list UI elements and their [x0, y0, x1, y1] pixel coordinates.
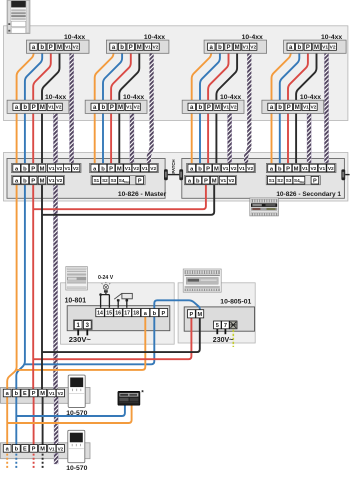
- box 10-826 Secondary 1: [182, 159, 345, 199]
- svg-text:V2: V2: [250, 45, 256, 51]
- svg-text:V1: V1: [64, 166, 70, 172]
- wire blue 10-801 b to 10-805 M: [154, 300, 200, 310]
- svg-text:10-4xx: 10-4xx: [64, 34, 85, 41]
- cable V1V2 riser from master: [53, 184, 57, 391]
- wire orange branch to relay module: [7, 405, 131, 424]
- svg-text:18: 18: [133, 311, 139, 317]
- svg-text:5: 5: [216, 323, 219, 329]
- cable V1V2 from lower 10-4xx block 1: [53, 110, 57, 166]
- apartment station 2 (10-570): [68, 430, 85, 462]
- svg-text:7: 7: [224, 323, 227, 329]
- wire M-bus black riser: [41, 184, 43, 389]
- cable V1V2 from upper 10-4xx block 4: [324, 50, 328, 166]
- svg-text:M: M: [295, 105, 300, 111]
- svg-text:V1: V1: [145, 45, 151, 51]
- svg-text:V1: V1: [220, 178, 226, 184]
- svg-text:V1: V1: [65, 45, 71, 51]
- svg-text:V2: V2: [247, 166, 253, 172]
- wire a-bus column 1: [17, 50, 34, 164]
- device icon 10-805-01: [183, 269, 221, 292]
- wire b-bus column 3: [200, 50, 220, 164]
- patch plug secondary right edge: [341, 169, 349, 180]
- inner box 10-801: [67, 306, 170, 331]
- terminal block A4 (10-4xx): [284, 40, 347, 53]
- svg-text:M: M: [314, 45, 319, 51]
- wire a-bus column 4: [272, 50, 291, 164]
- wire M between strips: [42, 397, 44, 445]
- svg-text:V2: V2: [310, 166, 316, 172]
- cable V1V2 from lower 10-4xx block 4: [307, 110, 311, 166]
- wire a-bus column 2: [95, 50, 114, 164]
- svg-text:V2: V2: [58, 446, 64, 451]
- lamp leads to terminals 14 15: [105, 293, 107, 295]
- svg-text:M: M: [212, 179, 217, 185]
- svg-text:14: 14: [97, 311, 103, 317]
- terminal row2 master a b P M V1 V2: [11, 176, 64, 185]
- svg-text:10-4xx: 10-4xx: [242, 34, 263, 41]
- cable V1V2 from lower 10-4xx block 3: [228, 110, 232, 166]
- svg-text:V2: V2: [58, 391, 64, 396]
- svg-text:V1: V1: [126, 105, 132, 111]
- svg-text:V2: V2: [310, 105, 316, 111]
- terminals 1 3 (230V input): [74, 320, 93, 330]
- svg-text:V2: V2: [330, 45, 336, 51]
- svg-text:P: P: [31, 166, 35, 172]
- svg-text:S2: S2: [277, 178, 283, 183]
- svg-text:b: b: [278, 166, 282, 172]
- svg-text:V1: V1: [48, 105, 54, 111]
- svg-text:V1: V1: [243, 45, 249, 51]
- terminal row1 master group2 a b P M V1 V2 V1 V2: [90, 163, 159, 172]
- svg-text:V1: V1: [322, 45, 328, 51]
- svg-text:10-801: 10-801: [65, 298, 87, 305]
- svg-text:V1: V1: [49, 391, 55, 396]
- wire a-bus column 3: [192, 50, 212, 164]
- svg-text:b: b: [297, 45, 301, 51]
- svg-text:V2: V2: [231, 105, 237, 111]
- device icon 10-801: [66, 267, 88, 290]
- svg-text:V2: V2: [56, 105, 62, 111]
- svg-text:V1: V1: [49, 446, 55, 451]
- wire P-bus red branch to secondary: [33, 184, 206, 209]
- svg-text:10-4xx: 10-4xx: [220, 94, 241, 101]
- wire P-bus column 2: [111, 50, 131, 164]
- wire b-bus blue branch to 10-801: [25, 317, 154, 365]
- terminal row1 master group1 a b P M V1 V2 V1 V2: [11, 163, 81, 172]
- svg-text:b: b: [23, 105, 27, 111]
- wire P-bus red riser: [32, 184, 34, 389]
- svg-text:10-805-01: 10-805-01: [220, 298, 251, 305]
- svg-text:M: M: [118, 105, 123, 111]
- module icon 10-826 device: [250, 198, 279, 216]
- wire M-bus column 1: [42, 50, 60, 164]
- leads below 1 3: [77, 330, 79, 336]
- svg-text:V1: V1: [49, 166, 55, 172]
- svg-text:b: b: [15, 391, 19, 397]
- wire stub b dashed: [15, 454, 17, 469]
- wire M-bus column 2: [119, 50, 139, 164]
- svg-text:P: P: [206, 166, 210, 172]
- svg-text:V1: V1: [223, 105, 229, 111]
- svg-text:17: 17: [124, 311, 130, 317]
- svg-text:b: b: [23, 179, 27, 185]
- terminal block B2 (10-4xx): [85, 100, 147, 113]
- svg-text:b: b: [23, 166, 27, 172]
- svg-text:10-4xx: 10-4xx: [123, 94, 144, 101]
- svg-text:V1: V1: [239, 166, 245, 172]
- wire a-bus orange branch to 10-801: [17, 317, 146, 370]
- relay module (asterisk): [118, 391, 140, 405]
- svg-text:V2: V2: [133, 166, 139, 172]
- svg-text:P: P: [286, 166, 290, 172]
- apartment station 1 (10-570): [68, 375, 85, 407]
- wire stub M dashed: [42, 454, 44, 469]
- svg-text:S3: S3: [286, 178, 292, 183]
- cable V1V2 from upper 10-4xx block 2: [149, 50, 152, 166]
- svg-text:10-4xx: 10-4xx: [321, 34, 342, 41]
- svg-text:S1: S1: [94, 178, 100, 183]
- svg-text:P: P: [49, 45, 53, 51]
- wire P-bus column 3: [208, 50, 228, 164]
- svg-text:b: b: [278, 105, 282, 111]
- wire P-bus column 1: [33, 50, 51, 164]
- wire b-bus column 4: [280, 50, 300, 164]
- svg-text:V2: V2: [56, 166, 62, 172]
- svg-text:E: E: [23, 391, 27, 397]
- svg-text:M: M: [40, 391, 45, 397]
- strip plate apartment 1: [1, 387, 91, 403]
- svg-text:M: M: [40, 166, 45, 172]
- terminal block A2 (10-4xx): [106, 40, 168, 53]
- terminal row2 secondary S1 S2 S3 S4dim P: [266, 176, 320, 185]
- patch cable between master and secondary: [164, 169, 183, 180]
- wire P-bus red branch to 10-805-01: [33, 317, 191, 359]
- svg-text:M: M: [40, 179, 45, 185]
- svg-text:V2: V2: [73, 45, 79, 51]
- wire P-bus column 4: [288, 50, 308, 164]
- svg-text:P: P: [32, 105, 36, 111]
- svg-text:V2: V2: [152, 45, 158, 51]
- svg-text:b: b: [198, 105, 202, 111]
- svg-text:V2: V2: [56, 178, 62, 184]
- terminal row 10-801: 14 15 16 17 18 a b P: [96, 309, 168, 317]
- svg-text:M: M: [40, 105, 45, 111]
- svg-text:M: M: [57, 45, 62, 51]
- wire M-bus column 3: [216, 50, 237, 164]
- svg-text:b: b: [153, 311, 157, 317]
- terminal strip apartment 2: a b E P M V1 V2: [3, 445, 64, 453]
- strip plate apartment 2: [1, 443, 91, 459]
- wire b-bus blue riser: [16, 184, 25, 389]
- terminal block A3 (10-4xx): [204, 40, 267, 53]
- svg-text:b: b: [40, 45, 44, 51]
- cable V1V2 from lower 10-4xx block 2: [130, 110, 134, 166]
- terminal strip apartment 1: a b E P M V1 V2: [3, 389, 64, 397]
- svg-text:b: b: [120, 45, 124, 51]
- wire P between strips: [33, 397, 35, 445]
- svg-text:M: M: [215, 105, 220, 111]
- terminal row1 secondary group2 a b P M V1 V2 V1 V2: [266, 163, 336, 172]
- svg-text:10-826 - Master: 10-826 - Master: [118, 191, 167, 198]
- terminal block A1 (10-4xx): [27, 40, 90, 53]
- svg-text:P: P: [162, 311, 166, 317]
- background area upper (outdoor stations zone): [4, 26, 348, 121]
- svg-text:P: P: [190, 312, 194, 318]
- svg-text:b: b: [15, 447, 19, 453]
- svg-text:V2: V2: [150, 166, 156, 172]
- box area 10-805-01: [178, 283, 255, 343]
- door opener symbol: [114, 293, 132, 307]
- svg-text:V1: V1: [125, 166, 131, 172]
- wire b-bus column 2: [103, 50, 122, 164]
- wire b between strips: [15, 397, 17, 445]
- svg-text:b: b: [198, 166, 202, 172]
- terminal row2 secondary a b P M V1 V2: [184, 176, 236, 185]
- wire stub P dashed: [33, 454, 35, 469]
- svg-text:P: P: [226, 45, 230, 51]
- svg-text:M: M: [214, 166, 219, 172]
- svg-text:V1: V1: [302, 166, 308, 172]
- svg-text:P: P: [32, 447, 36, 453]
- svg-text:V1: V1: [319, 166, 325, 172]
- svg-text:PATCH: PATCH: [171, 159, 176, 173]
- cable V1V2 from upper 10-4xx block 3: [246, 50, 249, 166]
- svg-text:b: b: [196, 179, 200, 185]
- svg-text:P: P: [109, 166, 113, 172]
- svg-text:P: P: [306, 45, 310, 51]
- svg-text:0-24 V: 0-24 V: [98, 275, 114, 281]
- svg-text:P: P: [138, 178, 142, 184]
- wire blue branch to relay module: [16, 405, 125, 417]
- terminals P M of 10-805-01: [188, 310, 204, 318]
- wire stub a dashed: [6, 454, 8, 469]
- svg-text:230V~: 230V~: [69, 335, 92, 344]
- earth dashed lead: [232, 330, 234, 347]
- svg-text:15: 15: [106, 311, 112, 317]
- svg-text:V2: V2: [134, 105, 140, 111]
- svg-text:M: M: [117, 166, 122, 172]
- svg-text:P: P: [313, 178, 317, 184]
- svg-text:P: P: [31, 179, 35, 185]
- svg-text:10-570: 10-570: [66, 465, 87, 472]
- svg-text:10-826 - Secondary 1: 10-826 - Secondary 1: [276, 191, 341, 198]
- terminal block B3 (10-4xx): [182, 100, 244, 113]
- svg-text:M: M: [294, 166, 299, 172]
- svg-text:10-4xx: 10-4xx: [300, 94, 321, 101]
- svg-text:S1: S1: [269, 178, 275, 183]
- svg-text:M: M: [137, 45, 142, 51]
- svg-text:P: P: [110, 105, 114, 111]
- svg-text:P: P: [207, 105, 211, 111]
- svg-text:10-4xx: 10-4xx: [45, 94, 66, 101]
- wire M-bus column 4: [296, 50, 316, 164]
- wire b-bus column 1: [25, 50, 42, 164]
- svg-text:Dim: Dim: [124, 180, 130, 184]
- wire M-bus black branch to 10-805-01: [42, 317, 200, 352]
- svg-text:b: b: [101, 166, 105, 172]
- svg-text:M: M: [197, 312, 202, 318]
- inner box 10-805-01: [184, 307, 254, 331]
- svg-text:P: P: [32, 391, 36, 397]
- svg-text:b: b: [218, 45, 222, 51]
- terminals 5 7 earth: [214, 321, 238, 329]
- wire M-bus black branch to secondary: [42, 184, 214, 215]
- terminal block B4 (10-4xx): [262, 100, 324, 113]
- svg-text:M: M: [235, 45, 240, 51]
- svg-text:S2: S2: [102, 178, 108, 183]
- svg-text:E: E: [23, 447, 27, 453]
- svg-text:V2: V2: [73, 166, 79, 172]
- svg-text:Dim: Dim: [300, 180, 306, 184]
- terminal block B1 (10-4xx): [7, 100, 69, 113]
- terminal row2 master S1 S2 S3 S4dim P: [91, 176, 145, 185]
- svg-text:10-570: 10-570: [66, 410, 87, 417]
- svg-text:S3: S3: [111, 178, 117, 183]
- door station icon (outdoor panel): [7, 0, 30, 33]
- svg-text:V2: V2: [231, 166, 237, 172]
- svg-text:V1: V1: [223, 166, 229, 172]
- cable V1V2 from upper 10-4xx block 1: [70, 50, 74, 166]
- svg-text:230V~: 230V~: [213, 337, 233, 344]
- svg-text:10-4xx: 10-4xx: [144, 34, 165, 41]
- svg-text:V1: V1: [49, 178, 55, 184]
- cable stub V1V2 below strip 2: [54, 453, 58, 464]
- svg-text:b: b: [101, 105, 105, 111]
- wire a-bus orange riser: [7, 184, 16, 389]
- svg-text:V1: V1: [303, 105, 309, 111]
- terminal row1 secondary group1 a b P M V1 V2 V1 V2: [187, 163, 256, 172]
- svg-text:M: M: [40, 447, 45, 453]
- svg-text:P: P: [204, 179, 208, 185]
- wire a between strips: [6, 397, 8, 445]
- leads below 5 7: [216, 329, 218, 334]
- svg-text:V2: V2: [228, 178, 234, 184]
- background band (10-826 zone): [4, 153, 348, 202]
- lamp symbol: [102, 282, 111, 293]
- box 10-826 Master: [7, 159, 165, 199]
- svg-text:V2: V2: [328, 166, 334, 172]
- svg-text:V1: V1: [142, 166, 148, 172]
- cable V1V2 between strips: [54, 397, 58, 446]
- svg-text:P: P: [287, 105, 291, 111]
- box area 10-801: [61, 283, 175, 344]
- svg-text:16: 16: [115, 311, 121, 317]
- svg-text:P: P: [129, 45, 133, 51]
